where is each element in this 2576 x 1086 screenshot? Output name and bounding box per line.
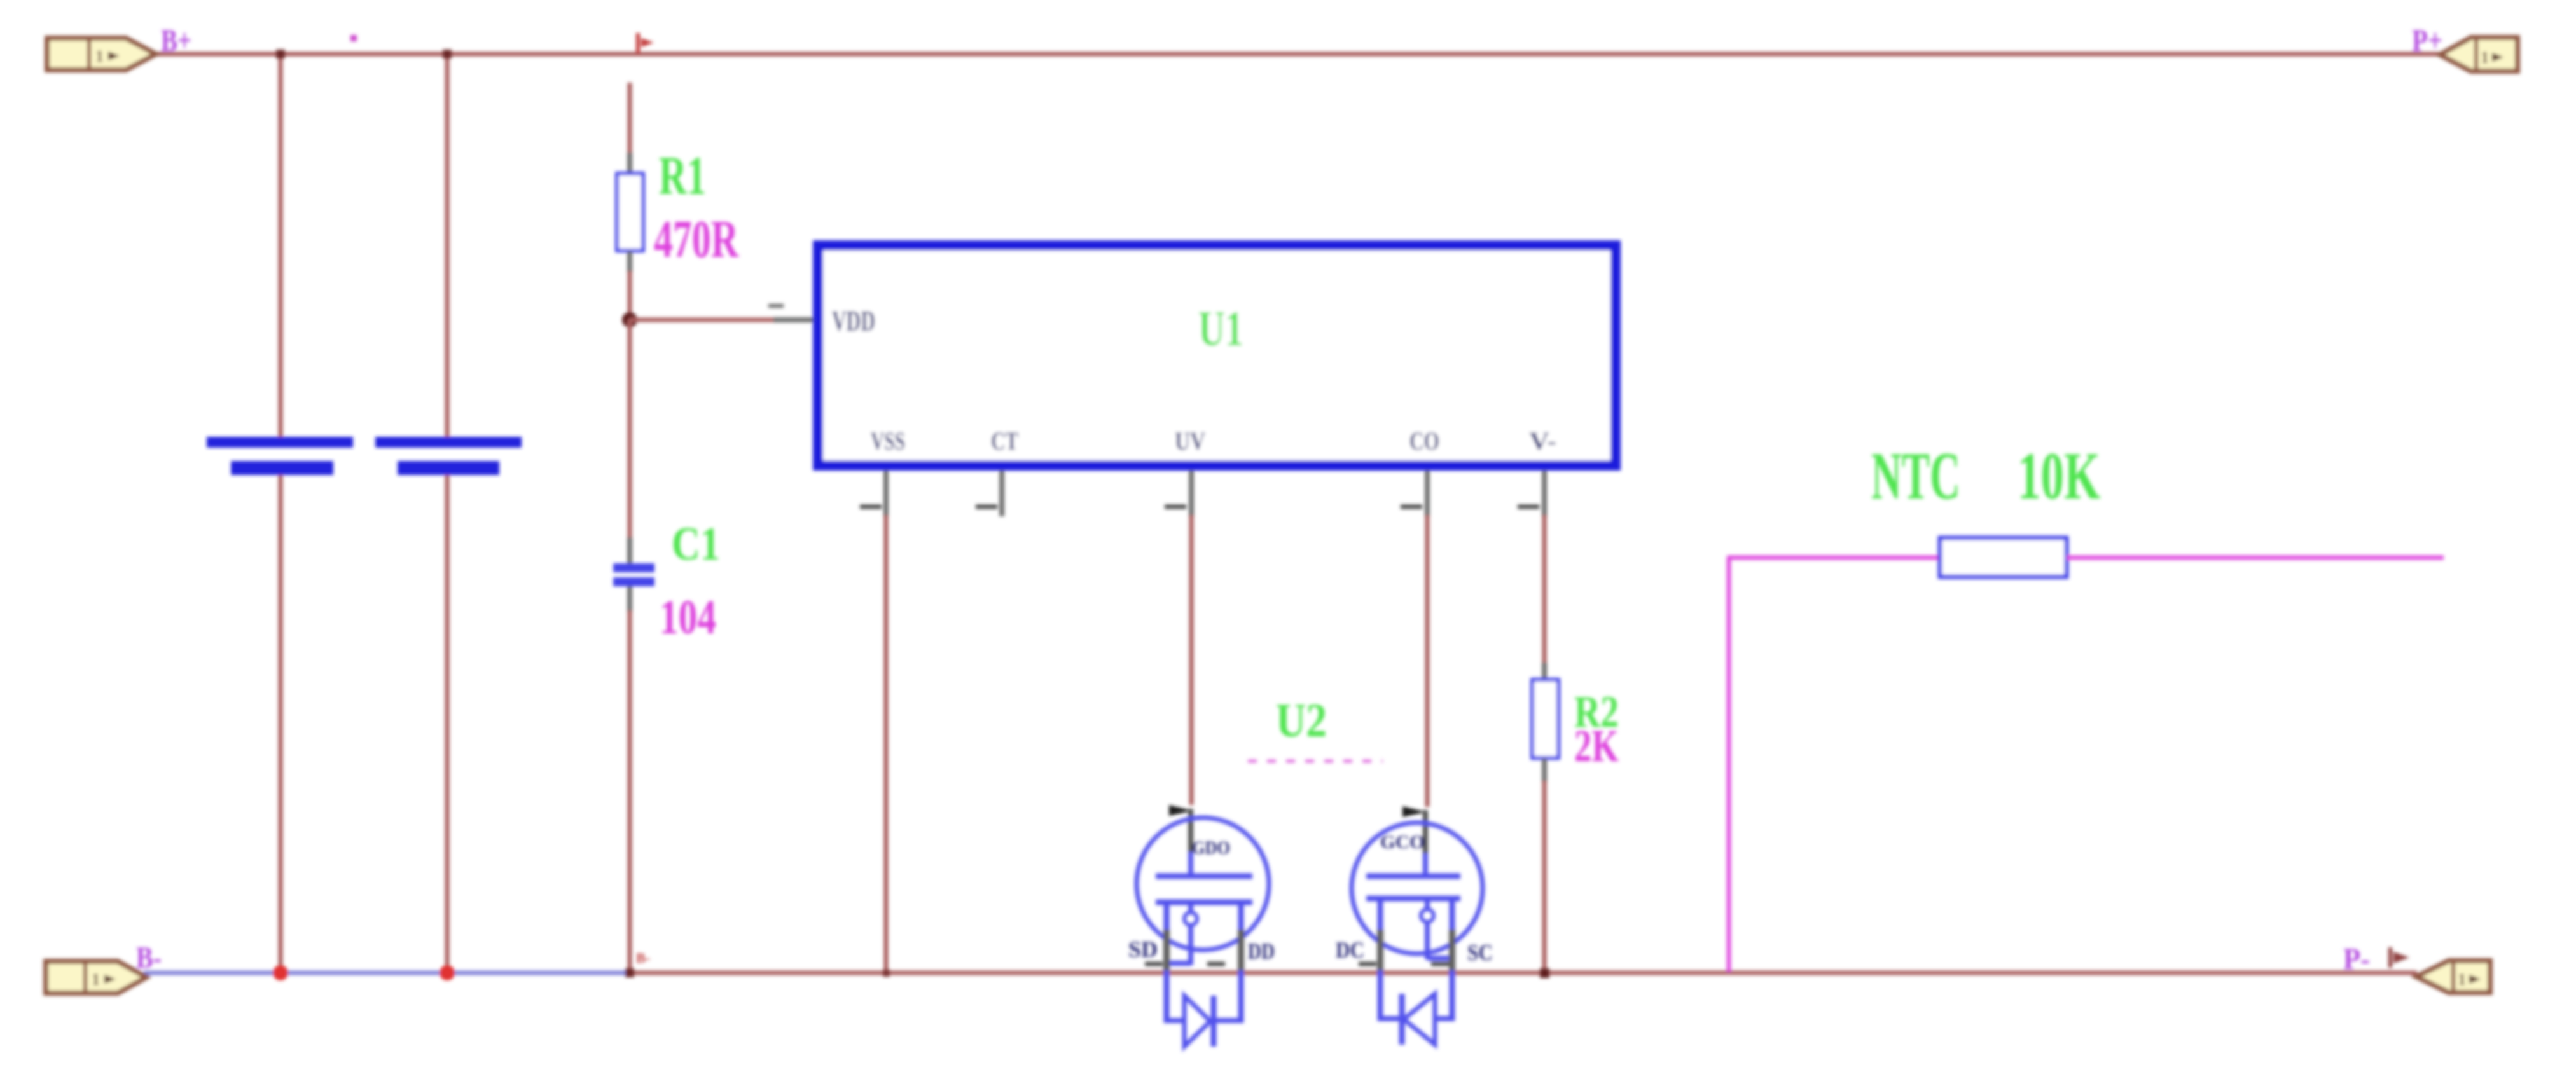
U2 hidden value dashed underline	[1248, 760, 1383, 763]
pin stub V-	[1542, 471, 1547, 516]
svg-text:B-: B-	[136, 941, 162, 975]
wire NTC horizontal left magenta	[1727, 556, 1940, 560]
svg-text:V-: V-	[1529, 427, 1556, 455]
connector J3 P+ (top right)	[2440, 38, 2517, 71]
transistor Q2 (right MOSFET of U2)	[1352, 806, 1483, 1045]
svg-text:1: 1	[92, 970, 100, 989]
pin stub CO	[1425, 471, 1430, 516]
wire VSS to bottom rail	[884, 515, 889, 973]
svg-text:NTC: NTC	[1871, 439, 1960, 513]
net flag I+ near R1 top	[638, 33, 654, 53]
wire NTC vertical magenta	[1727, 558, 1731, 972]
svg-text:1: 1	[2458, 970, 2466, 989]
wire NTC horizontal right magenta	[2067, 556, 2444, 560]
pin number mark VDD	[768, 304, 784, 308]
wire C1 bottom to rail	[628, 610, 632, 973]
battery BT2	[375, 437, 522, 475]
junction bottom rail at VSS	[883, 970, 890, 977]
svg-text:U2: U2	[1276, 694, 1327, 747]
capacitor C1	[613, 537, 654, 612]
svg-text:SD: SD	[1128, 937, 1158, 962]
svg-text:2K: 2K	[1574, 720, 1619, 771]
pin stub VDD (gray)	[773, 317, 815, 322]
svg-text:VDD: VDD	[832, 305, 875, 337]
resistor R2	[1532, 663, 1558, 782]
junction top rail at battery 1	[276, 50, 285, 58]
pin number mark VSS	[860, 505, 882, 509]
svg-text:P+: P+	[2412, 22, 2442, 58]
connector J1 B+ (top left)	[47, 38, 156, 70]
op-amp U1 body	[818, 245, 1616, 465]
wire bottom rail red segment	[630, 971, 2417, 975]
wire R1 bottom to VDD junction	[628, 271, 632, 321]
wire battery 2 vertical	[445, 54, 450, 973]
svg-text:R1: R1	[659, 145, 706, 206]
junction bottom rail at R2	[1540, 968, 1549, 978]
svg-text:GDO: GDO	[1192, 837, 1230, 858]
pin number mark CT	[976, 505, 997, 509]
svg-text:CO: CO	[1409, 427, 1439, 455]
svg-text:SC: SC	[1467, 940, 1493, 965]
junction bottom rail at C1 branch	[625, 968, 634, 977]
transistor Q1 (left MOSFET of U2)	[1137, 805, 1269, 1047]
wire UV to Q1 gate	[1189, 515, 1194, 805]
wire bottom rail blue segment (B- net)	[144, 971, 631, 975]
node VDD junction	[622, 312, 637, 327]
junction top rail at battery 2	[443, 50, 452, 58]
junction bottom rail at battery 2	[440, 965, 455, 980]
svg-text:U1: U1	[1198, 301, 1243, 356]
junction bottom rail at battery 1	[273, 965, 288, 980]
svg-text:P-: P-	[2343, 942, 2370, 976]
connector J2 B- (bottom left)	[46, 961, 146, 993]
svg-text:B-: B-	[636, 950, 650, 966]
wire VDD horizontal	[630, 318, 775, 322]
wire battery 1 vertical	[279, 54, 283, 973]
svg-text:1: 1	[95, 47, 104, 65]
svg-text:10K: 10K	[2018, 439, 2100, 513]
wire top rail B+	[156, 52, 2440, 57]
svg-text:VSS: VSS	[871, 427, 905, 455]
resistor NTC	[1940, 538, 2067, 577]
pin stub UV	[1189, 471, 1194, 516]
pin number mark UV	[1165, 505, 1186, 509]
pin number mark V-	[1518, 505, 1539, 509]
svg-text:DC: DC	[1336, 937, 1364, 963]
battery BT1	[207, 437, 353, 475]
connector J4 P- (bottom right)	[2416, 961, 2490, 993]
svg-text:C1: C1	[672, 518, 720, 570]
svg-text:GCO: GCO	[1380, 832, 1425, 853]
wire CO to Q2 gate	[1425, 515, 1430, 807]
svg-text:104: 104	[660, 591, 716, 644]
svg-text:CT: CT	[991, 427, 1018, 455]
magenta net dot on top rail	[350, 35, 357, 41]
pin stub CT	[999, 471, 1004, 516]
pin stub VSS	[883, 471, 889, 516]
wire R2 bottom to rail	[1542, 781, 1547, 973]
wire V- to R2	[1542, 515, 1547, 664]
svg-text:B+: B+	[161, 22, 191, 58]
resistor R1	[617, 153, 643, 272]
pin number mark CO	[1401, 505, 1422, 509]
net flag near P-	[2390, 947, 2409, 968]
wire R1 branch top (net flagged, gap to rail)	[628, 83, 632, 154]
svg-text:DD: DD	[1248, 938, 1275, 964]
wire junction down to C1	[628, 320, 632, 539]
svg-text:470R: 470R	[654, 210, 739, 269]
svg-text:1: 1	[2481, 48, 2489, 67]
svg-text:UV: UV	[1175, 427, 1205, 455]
